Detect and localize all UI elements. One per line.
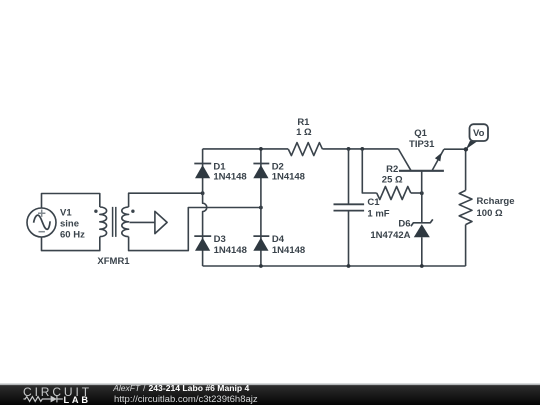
- node: secondary top joins left bridge column: [201, 191, 205, 195]
- wire left bridge column with hop over mid wire: [203, 193, 207, 236]
- diode D3: [194, 236, 211, 266]
- resistor R1: [288, 143, 322, 156]
- transformer secondary phase dot: [131, 210, 134, 213]
- svg-text:Vo: Vo: [473, 128, 485, 139]
- svg-text:1N4742A: 1N4742A: [370, 230, 410, 241]
- diode D4: [253, 236, 269, 266]
- svg-text:60 Hz: 60 Hz: [60, 230, 85, 241]
- zener diode D6: [411, 193, 433, 266]
- label D6 1N4742A: [370, 219, 410, 241]
- wire V1 bottom to primary: [42, 237, 100, 251]
- label R1 1 Ohm: [296, 117, 312, 138]
- node: top rail at right bridge column: [259, 147, 263, 151]
- label Q1 TIP31: [409, 128, 435, 150]
- transistor Q1: [398, 149, 444, 193]
- footer bar: [0, 383, 540, 405]
- svg-text:25 Ω: 25 Ω: [382, 174, 403, 185]
- node: bottom rail at right bridge column: [259, 264, 263, 268]
- wire bottom rail: [203, 265, 466, 267]
- wire left bridge column top: [202, 149, 204, 164]
- node: R2 / base / D6 junction: [420, 191, 424, 195]
- svg-text:Rcharge: Rcharge: [477, 196, 515, 207]
- label D2: [272, 161, 305, 182]
- diode D1: [194, 164, 211, 194]
- transformer XFMR1 primary coil: [100, 207, 107, 237]
- diode D2: [253, 164, 269, 179]
- svg-text:1N4148: 1N4148: [272, 245, 305, 256]
- svg-text:Q1: Q1: [414, 128, 427, 139]
- wire top rail left of R1: [203, 148, 289, 150]
- node: bottom rail at C1: [347, 264, 351, 268]
- wire R2 to junction: [411, 192, 422, 194]
- node: bottom rail at D6: [420, 264, 424, 268]
- node: Vo output: [464, 147, 468, 151]
- transformer XFMR1 core: [113, 207, 116, 237]
- wire right bridge column: [260, 149, 262, 236]
- wire V1 top to primary: [42, 194, 100, 209]
- svg-text:243-214 Labo #6 Manip 4: 243-214 Labo #6 Manip 4: [149, 383, 250, 393]
- transformer primary phase dot: [94, 210, 97, 213]
- label D1: [213, 161, 246, 182]
- svg-text:XFMR1: XFMR1: [97, 256, 130, 267]
- svg-text:1N4148: 1N4148: [272, 171, 305, 182]
- svg-text:1 mF: 1 mF: [367, 208, 389, 219]
- voltage source V1: [27, 208, 56, 237]
- svg-text:1 Ω: 1 Ω: [296, 127, 312, 138]
- label D3: [214, 234, 247, 256]
- svg-text:LAB: LAB: [64, 395, 91, 405]
- svg-text:AlexFT: AlexFT: [112, 383, 141, 393]
- label D4: [272, 234, 305, 256]
- wire secondary top to bridge: [129, 193, 203, 207]
- resistor R2: [377, 187, 411, 200]
- svg-text:D3: D3: [214, 234, 226, 245]
- label Rcharge 100 Ohm: [477, 196, 515, 219]
- CircuitLab logo mini circuit: [24, 396, 63, 403]
- label R2 25 Ohm: [382, 164, 403, 185]
- svg-text:http://circuitlab.com/c3t239t6: http://circuitlab.com/c3t239t6h8ajz: [114, 394, 258, 405]
- svg-text:TIP31: TIP31: [409, 139, 435, 150]
- label V1 sine 60 Hz: [60, 208, 85, 241]
- svg-text:C1: C1: [367, 197, 380, 208]
- svg-text:D6: D6: [398, 219, 410, 230]
- node: top rail at R2 drop: [360, 147, 364, 151]
- svg-text:D4: D4: [272, 234, 285, 245]
- wire top rail right of R1: [322, 148, 398, 150]
- svg-text:1N4148: 1N4148: [214, 245, 247, 256]
- svg-text:V1: V1: [60, 208, 72, 219]
- label C1 1 mF: [367, 197, 389, 219]
- capacitor C1: [334, 149, 365, 266]
- wire top rail drop to R2: [362, 149, 376, 193]
- wire emitter to Vo node: [444, 148, 466, 150]
- svg-text:sine: sine: [60, 219, 79, 230]
- node: secondary bottom joins right bridge column: [259, 206, 263, 210]
- transformer XFMR1 secondary coil: [122, 207, 129, 237]
- svg-text:1N4148: 1N4148: [213, 171, 246, 182]
- svg-text:100 Ω: 100 Ω: [477, 208, 503, 219]
- resistor Rcharge: [459, 149, 472, 266]
- node: top rail at C1: [347, 147, 351, 151]
- arrow from secondary tap: [130, 211, 168, 233]
- net flag Vo: [466, 124, 488, 149]
- wire secondary bottom to bridge mid (under hop): [129, 208, 261, 251]
